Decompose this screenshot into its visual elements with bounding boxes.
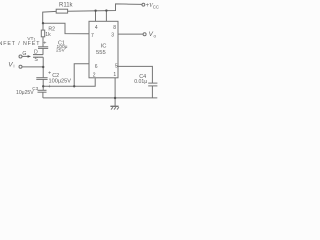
resistor R1 (56, 9, 67, 13)
svg-text:25V: 25V (56, 47, 65, 53)
wire pin2 horizontal (43, 78, 95, 86)
svg-text:D: D (34, 50, 38, 56)
terminal lower input (19, 65, 22, 68)
wire gate (22, 55, 29, 57)
wire input lower (22, 66, 43, 68)
capacitor C2 (36, 77, 47, 79)
svg-text:+: + (48, 84, 51, 90)
wire to C2 (42, 67, 44, 78)
wire C3 to ground rail (42, 92, 44, 98)
svg-text:6: 6 (95, 64, 98, 70)
wire source down (42, 57, 44, 67)
node pin8 stub (105, 11, 107, 22)
svg-text:G: G (22, 51, 26, 57)
ground (110, 105, 118, 107)
node pin4 stub (95, 11, 97, 22)
svg-text:1k: 1k (45, 32, 51, 38)
terminal Vo (143, 33, 146, 36)
svg-text:+: + (43, 40, 46, 46)
wire C2 to pin2 rail (42, 79, 44, 86)
svg-text:7: 7 (91, 33, 94, 39)
svg-text:1: 1 (113, 72, 116, 78)
svg-text:V: V (8, 61, 13, 68)
svg-text:4: 4 (95, 25, 98, 31)
svg-text:NFET / NFET: NFET / NFET (0, 41, 40, 47)
terminal gate input (19, 55, 22, 58)
junction node column-pin7 (42, 22, 44, 24)
junction node pin6-pin2 (73, 85, 75, 87)
svg-text:+VCC: +VCC (146, 3, 159, 9)
svg-text:8: 8 (113, 25, 116, 31)
transistor VT1 source bar (33, 56, 43, 58)
op-amp U1: IC 555 box (89, 21, 118, 78)
svg-text:100μ25V: 100μ25V (49, 79, 72, 85)
junction node C2-pin2 (42, 85, 44, 87)
junction node pin1-ground (114, 97, 116, 99)
junction node source-input (42, 66, 44, 68)
resistor R2 (41, 30, 44, 37)
transistor VT1 gate arrow (28, 55, 31, 58)
wire pin5 (118, 66, 152, 83)
svg-text:10μ25V: 10μ25V (16, 90, 34, 96)
svg-text:3: 3 (111, 32, 114, 38)
wire column to R2 (42, 23, 44, 30)
junction node rail-pin4 (94, 10, 96, 12)
wire pin3 output (118, 33, 143, 35)
svg-text:0.01μ: 0.01μ (134, 79, 147, 85)
svg-text:5: 5 (115, 63, 118, 69)
svg-text:i: i (14, 64, 15, 69)
wire C1 to drain (42, 48, 44, 54)
terminal +Vcc (142, 3, 145, 6)
wire node to C3 (42, 86, 44, 90)
wire bottom ground rail (43, 97, 157, 99)
svg-text:S: S (34, 57, 38, 63)
wire pin7 jog (43, 23, 89, 34)
svg-text:2: 2 (93, 73, 96, 79)
svg-text:555: 555 (96, 50, 106, 56)
wire R2 to C1 (42, 37, 44, 47)
wire top rail (43, 4, 142, 23)
capacitor C4 (148, 82, 157, 84)
wire C4 to ground rail (151, 86, 153, 98)
junction node rail-pin8 (105, 9, 107, 11)
svg-text:R11k: R11k (59, 3, 74, 9)
wire pin1 to ground (114, 78, 116, 106)
transistor VT1 drain bar (33, 54, 43, 56)
wire pin6 (74, 64, 89, 87)
capacitor C1 (38, 46, 48, 48)
capacitor C3 (38, 89, 47, 91)
svg-text:+: + (48, 71, 51, 77)
svg-text:IC: IC (101, 43, 107, 49)
